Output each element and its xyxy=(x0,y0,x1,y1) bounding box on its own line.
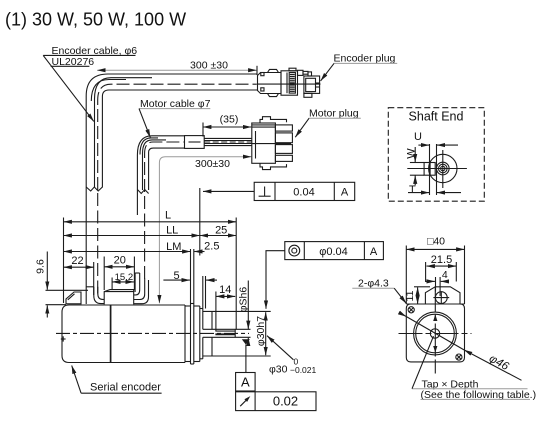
concentricity frame leader xyxy=(266,251,285,309)
dimension 15.2 xyxy=(112,272,134,290)
connector block on motor top xyxy=(104,290,134,305)
dimension (35) xyxy=(203,114,251,137)
shaft end extension lines xyxy=(429,144,431,195)
encoder cable xyxy=(86,74,257,304)
shaft end circle xyxy=(429,154,457,182)
concentricity feature control frame phi0.04 A xyxy=(285,242,384,260)
svg-text:□40: □40 xyxy=(427,235,445,247)
flange (side view) xyxy=(185,304,203,365)
motor plug leader xyxy=(295,118,309,137)
datum A triangle xyxy=(242,339,250,372)
svg-text:(35): (35) xyxy=(220,114,239,126)
phi30 tolerance label xyxy=(269,357,317,376)
motor plug xyxy=(252,117,293,170)
svg-text:Serial encoder: Serial encoder xyxy=(90,382,161,394)
svg-text:L: L xyxy=(165,209,171,221)
svg-text:(1) 30 W, 50 W, 100 W: (1) 30 W, 50 W, 100 W xyxy=(5,10,186,30)
encoder plug leader xyxy=(321,63,334,81)
motor centerline xyxy=(56,332,249,334)
encoder cable label xyxy=(43,45,137,68)
svg-text:2-φ4.3: 2-φ4.3 xyxy=(358,277,389,289)
svg-text:−0.021: −0.021 xyxy=(290,365,317,375)
motor top wedge clip xyxy=(66,292,81,304)
svg-text:11: 11 xyxy=(404,290,416,301)
phi30 tolerance leader xyxy=(267,336,294,360)
dimension 9.6 xyxy=(35,252,89,318)
circular runout frame 0.02 xyxy=(236,392,316,411)
dimension 25 xyxy=(200,224,236,236)
dimension 300+-30 (motor cable, gray path) xyxy=(159,157,251,304)
motor shaft xyxy=(203,329,251,337)
svg-text:9.6: 9.6 xyxy=(35,259,47,274)
tap depth label xyxy=(412,378,536,401)
encoder cable leader xyxy=(43,55,94,121)
front view centerlines xyxy=(399,288,472,374)
dimension LL xyxy=(64,225,200,237)
dimension 20 xyxy=(104,254,134,290)
motor plug label xyxy=(309,108,361,120)
dimension square40 xyxy=(406,235,464,304)
dimension phiSh6 xyxy=(237,281,249,345)
svg-text:22: 22 xyxy=(71,255,83,267)
motor cable wires xyxy=(204,138,251,145)
flange pilot (phi30h7 spigot) xyxy=(203,311,271,356)
encoder plug label xyxy=(334,53,398,65)
front view flange outline xyxy=(406,304,464,362)
dimension 11 xyxy=(404,287,430,304)
phi46 diagonal xyxy=(400,313,522,381)
svg-text:Motor plug: Motor plug xyxy=(309,108,359,120)
svg-text:300±30: 300±30 xyxy=(195,158,230,170)
shaft end detail box xyxy=(388,108,484,202)
shaft end centerlines xyxy=(407,168,467,170)
motor cable boot xyxy=(134,273,149,304)
svg-text:25: 25 xyxy=(215,224,227,236)
perpendicularity frame leader xyxy=(200,188,254,256)
dimension 5 xyxy=(163,270,217,309)
dimension 4 xyxy=(426,269,448,296)
front view connector hump xyxy=(425,287,460,304)
motor cable leader xyxy=(139,109,150,138)
svg-text:φ0.04: φ0.04 xyxy=(319,246,348,258)
svg-text:A: A xyxy=(341,187,349,199)
motor body (side view) xyxy=(62,305,185,363)
svg-text:φ46: φ46 xyxy=(487,353,511,374)
svg-text:φ30: φ30 xyxy=(269,363,288,375)
svg-text:A: A xyxy=(241,375,250,390)
vent mark on encoder cap xyxy=(61,336,66,341)
svg-text:20: 20 xyxy=(114,254,126,266)
svg-text:4: 4 xyxy=(442,269,448,281)
bolt hole top-left xyxy=(408,307,414,313)
dimension LM xyxy=(64,241,191,253)
dimension 300 +-30 (encoder cable) xyxy=(97,60,257,75)
svg-text:Motor cable φ7: Motor cable φ7 xyxy=(140,98,211,110)
motor cable xyxy=(137,136,184,279)
motor cable label xyxy=(139,98,211,110)
dimension 2.5 xyxy=(194,240,219,252)
motor cable ferrule xyxy=(185,136,205,149)
shaft end key xyxy=(424,163,435,176)
front view pilot circles xyxy=(414,312,457,355)
dimension L xyxy=(64,209,237,222)
svg-text:T: T xyxy=(409,184,416,196)
svg-text:A: A xyxy=(370,246,378,258)
svg-text:21.5: 21.5 xyxy=(431,254,452,266)
svg-text:U: U xyxy=(414,131,422,143)
svg-text:Encoder plug: Encoder plug xyxy=(334,53,396,65)
dimension 22 xyxy=(64,255,95,295)
svg-text:0.02: 0.02 xyxy=(273,394,298,409)
dimension extension lines (top) xyxy=(64,218,237,330)
serial encoder label xyxy=(81,382,162,394)
bolt hole bottom-right xyxy=(456,354,462,360)
svg-text:2.5: 2.5 xyxy=(204,240,219,252)
datum A box xyxy=(236,373,256,392)
tap depth leader xyxy=(412,336,434,389)
serial encoder leader xyxy=(72,366,81,394)
label 2-phi4.3 xyxy=(352,277,406,303)
svg-text:0.04: 0.04 xyxy=(293,186,314,198)
svg-text:Shaft End: Shaft End xyxy=(409,109,464,123)
perpendicularity feature control frame 0.04 A xyxy=(254,182,355,200)
encoder cable boot xyxy=(86,287,104,304)
svg-text:14: 14 xyxy=(219,284,231,296)
svg-text:φSh6: φSh6 xyxy=(237,287,249,313)
svg-text:LL: LL xyxy=(166,225,178,237)
shaft key flat xyxy=(215,330,235,332)
encoder plug U-BAT xyxy=(258,68,321,97)
dimension phi30h7 xyxy=(255,312,267,355)
dimension 14 xyxy=(216,284,235,331)
dimension 21.5 xyxy=(426,254,457,282)
